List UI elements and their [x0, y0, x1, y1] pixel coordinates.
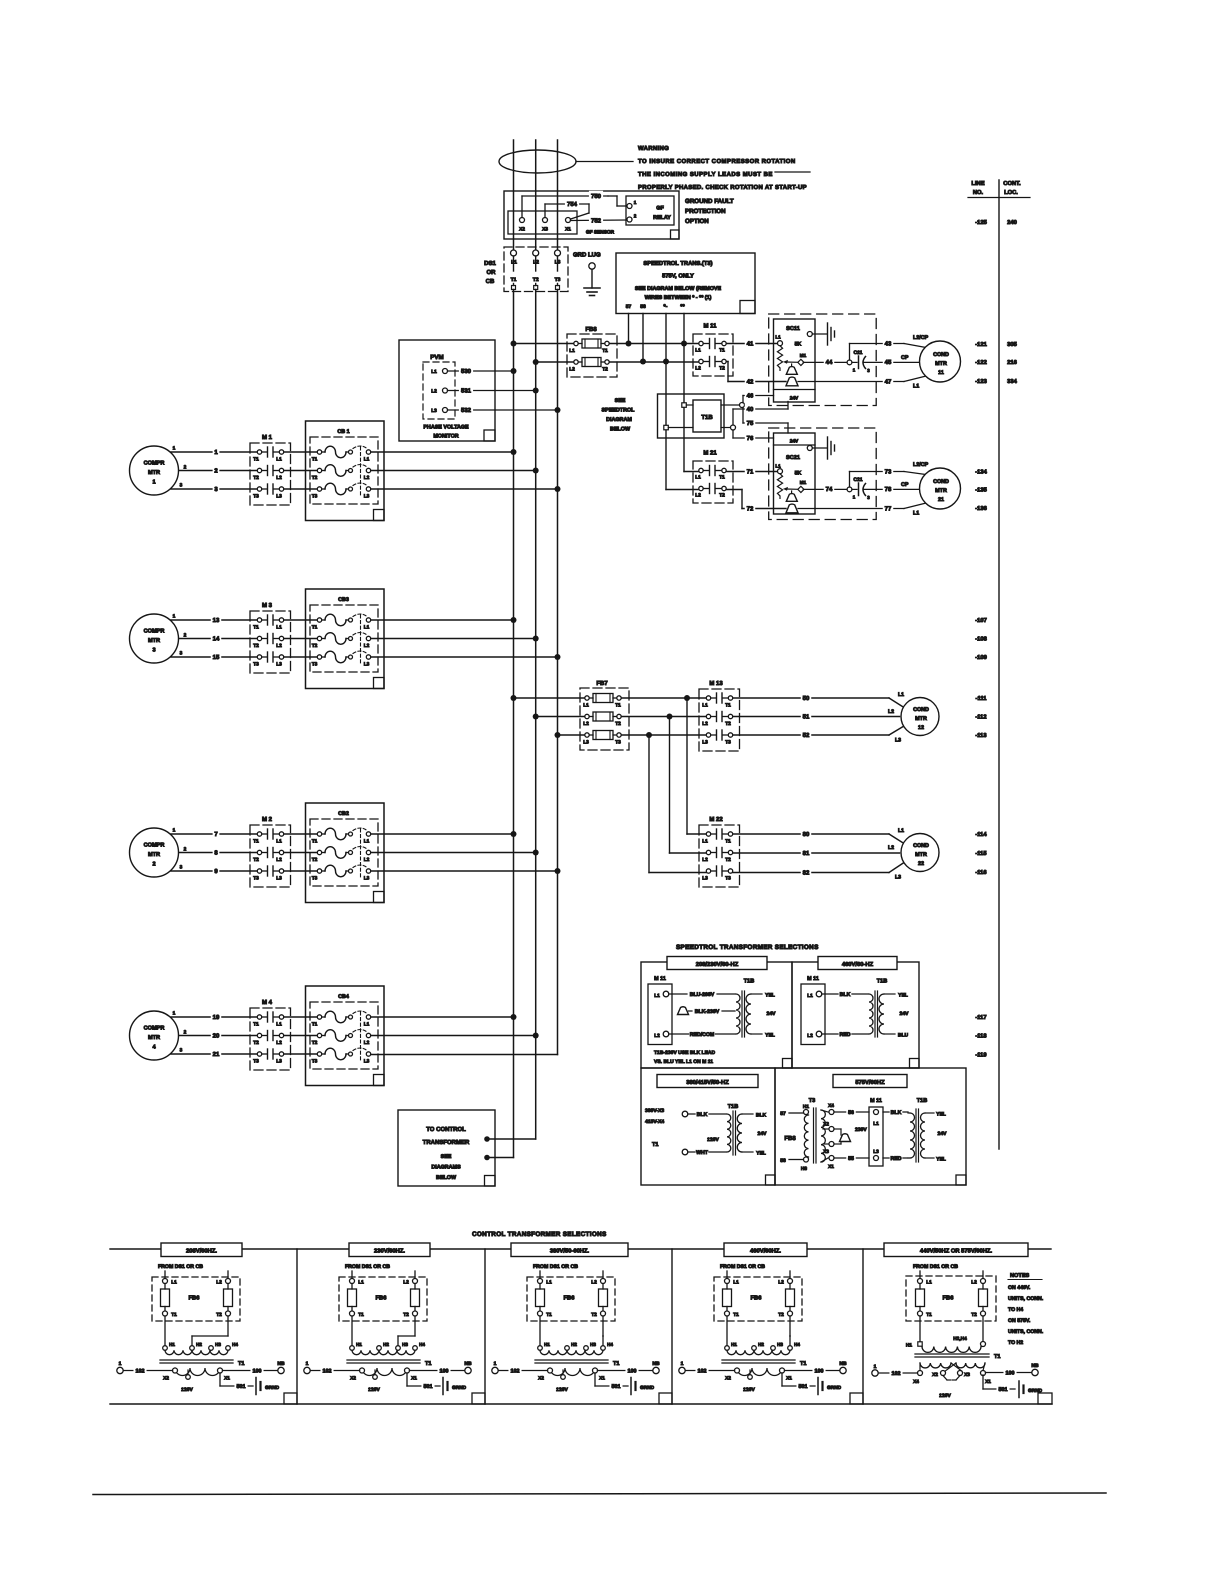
svg-text:CB2: CB2	[338, 811, 349, 817]
svg-text:L2: L2	[702, 857, 708, 863]
svg-text:-115: -115	[975, 851, 987, 857]
svg-text:40: 40	[747, 406, 754, 413]
panel header 460V	[818, 957, 897, 970]
control panel 5 wire 100	[986, 1363, 1039, 1376]
svg-text:T3: T3	[312, 1059, 318, 1065]
svg-text:13: 13	[213, 617, 220, 624]
svg-text:NOTES: NOTES	[1010, 1273, 1030, 1279]
DS1 pole L2	[533, 250, 539, 290]
svg-text:WARNING: WARNING	[638, 145, 669, 152]
svg-text:T1: T1	[253, 625, 259, 631]
svg-text:X2: X2	[538, 1376, 544, 1382]
svg-text:X1: X1	[224, 1376, 230, 1382]
svg-text:305: 305	[1007, 341, 1017, 348]
wire 46 T1B to SC11 24V	[742, 396, 744, 403]
svg-text:208V/60HZ.: 208V/60HZ.	[186, 1248, 217, 1255]
SC11 potentiometer	[777, 346, 782, 371]
svg-text:L2: L2	[702, 721, 708, 727]
wires compressor 1 to contactor M1	[171, 447, 257, 493]
svg-text:230V: 230V	[855, 1127, 867, 1133]
control panel 1 wire 102	[117, 1361, 173, 1374]
svg-text:CB4: CB4	[338, 994, 349, 1000]
svg-text:H2: H2	[571, 1342, 577, 1347]
panel D transformer T3 primary	[804, 1115, 808, 1157]
svg-text:LINE: LINE	[971, 181, 984, 187]
svg-text:PHASE VOLTAGE: PHASE VOLTAGE	[423, 425, 469, 431]
svg-text:L2/CP: L2/CP	[913, 462, 929, 468]
capacitor C21	[847, 477, 870, 500]
svg-text:RELAY: RELAY	[653, 215, 671, 221]
svg-text:H6: H6	[801, 1166, 807, 1172]
panel D terminal H6	[804, 1157, 809, 1162]
svg-text:1: 1	[119, 1361, 122, 1367]
wire bus L1 to FB8	[514, 343, 574, 345]
condenser motor 21	[920, 468, 961, 509]
svg-text:46: 46	[747, 392, 754, 399]
contactor M13	[699, 680, 740, 751]
bottom section dividers	[296, 1249, 298, 1404]
svg-text:L3: L3	[895, 875, 901, 881]
svg-text:H4: H4	[232, 1342, 238, 1347]
svg-text:H2: H2	[383, 1342, 389, 1347]
svg-text:L1: L1	[364, 839, 370, 845]
contactor M2	[250, 816, 291, 887]
svg-text:MTR: MTR	[148, 470, 160, 476]
svg-text:752: 752	[591, 217, 602, 224]
control panel 2 wire 102	[304, 1361, 360, 1374]
svg-text:YEL: YEL	[936, 1112, 946, 1118]
svg-text:460V/60HZ.: 460V/60HZ.	[750, 1248, 781, 1255]
warning note text	[638, 145, 807, 191]
svg-text:L2: L2	[695, 366, 701, 372]
svg-text:LOC.: LOC.	[1004, 189, 1018, 196]
wire bus L1 to FB7	[514, 697, 585, 699]
svg-text:CB: CB	[486, 278, 495, 285]
svg-text:21: 21	[938, 497, 944, 503]
condenser motor 22	[901, 834, 939, 872]
svg-text:L2: L2	[364, 857, 370, 863]
wire supply L1 top	[513, 140, 515, 251]
GF relay terminal 2	[627, 217, 632, 222]
control panel 3 transformer T1	[535, 1316, 620, 1393]
panel D wire 56	[834, 1111, 869, 1113]
PVM terminal L1 wire 530	[431, 366, 513, 375]
svg-text:2: 2	[184, 633, 187, 639]
svg-text:58: 58	[640, 304, 646, 310]
panel D wire 55	[834, 1157, 869, 1159]
svg-text:120V: 120V	[181, 1387, 193, 1393]
panel A wire BLU-208V	[669, 993, 735, 995]
wire 40 T1B to SC11 24V bottom	[732, 409, 734, 425]
svg-text:76: 76	[747, 435, 754, 442]
svg-text:216: 216	[1007, 359, 1017, 366]
svg-text:THE INCOMING SUPPLY LEADS MUST: THE INCOMING SUPPLY LEADS MUST BE	[638, 171, 773, 178]
svg-text:1: 1	[173, 1011, 176, 1017]
svg-text:T3: T3	[253, 876, 259, 882]
svg-text:BLK-230V: BLK-230V	[695, 1009, 720, 1015]
svg-text:T1: T1	[719, 348, 725, 354]
svg-text:T3: T3	[253, 1059, 259, 1065]
control panel 4 wire 102	[679, 1361, 735, 1374]
panel header 230V/60HZ.	[349, 1243, 430, 1257]
GF sensor terminal X2	[520, 218, 525, 223]
svg-text:X1: X1	[828, 1164, 834, 1170]
wire 78 C21 to motor CP	[864, 488, 921, 490]
svg-text:PVM: PVM	[430, 354, 443, 361]
junction drops to M22	[686, 698, 688, 834]
svg-text:M1: M1	[800, 480, 807, 485]
GF box corner notch	[671, 230, 680, 239]
svg-text:120V: 120V	[556, 1387, 568, 1393]
svg-text:100: 100	[815, 1368, 824, 1374]
svg-text:T2: T2	[719, 493, 725, 499]
svg-text:56: 56	[848, 1110, 854, 1116]
svg-text:T1: T1	[725, 839, 731, 845]
svg-text:T2: T2	[403, 1312, 409, 1318]
svg-text:MTR: MTR	[915, 716, 927, 722]
svg-text:L3: L3	[873, 1149, 879, 1155]
svg-text:1: 1	[173, 614, 176, 620]
svg-text:GF: GF	[656, 206, 664, 212]
svg-text:-111: -111	[976, 696, 988, 702]
control panel 1 transformer T1	[160, 1316, 245, 1393]
panel C terminal X3 wire BLK	[682, 1111, 688, 1117]
svg-text:43: 43	[885, 340, 892, 347]
svg-text:1: 1	[173, 446, 176, 452]
svg-text:H2: H2	[196, 1342, 202, 1347]
speed control SC21 inner box	[774, 433, 816, 514]
svg-text:M 11: M 11	[703, 323, 717, 330]
wire bus L2 to FB7	[536, 716, 585, 718]
svg-text:T1: T1	[511, 277, 517, 283]
svg-text:15: 15	[213, 654, 220, 661]
svg-text:H2,H4: H2,H4	[953, 1336, 967, 1342]
svg-text:FB6: FB6	[564, 1295, 576, 1302]
svg-text:L2: L2	[364, 643, 370, 649]
control panel 5 wire 501 to ground	[983, 1375, 1043, 1398]
wire 754	[545, 199, 589, 219]
svg-text:440V/50HZ OR 575V/60HZ.: 440V/50HZ OR 575V/60HZ.	[920, 1248, 993, 1255]
svg-text:-108: -108	[975, 636, 987, 643]
control panel 5 wire 102	[872, 1364, 918, 1377]
panel A horn symbol	[678, 1007, 689, 1015]
phase voltage monitor box	[399, 340, 495, 441]
panel C terminal X1 wire WHT	[682, 1149, 688, 1155]
svg-text:GRND: GRND	[1028, 1388, 1043, 1394]
svg-text:L1: L1	[702, 839, 708, 845]
svg-text:L1: L1	[775, 464, 781, 469]
svg-text:L2: L2	[276, 475, 282, 481]
svg-text:-125: -125	[975, 219, 987, 226]
fuse block FB7	[580, 680, 629, 750]
svg-text:X2: X2	[932, 1372, 938, 1378]
svg-text:L3: L3	[364, 1059, 370, 1065]
svg-text:T3: T3	[312, 494, 318, 500]
svg-text:X2: X2	[823, 1122, 829, 1128]
DS1 pole L1	[511, 250, 518, 290]
speedtrol panel 380/415V outer box	[641, 1068, 775, 1185]
svg-text:T1: T1	[800, 1361, 807, 1367]
svg-text:L2: L2	[276, 1040, 282, 1046]
svg-text:120V: 120V	[743, 1387, 755, 1393]
svg-text:L1: L1	[431, 369, 437, 375]
svg-text:-122: -122	[975, 359, 987, 366]
svg-text:L1: L1	[276, 625, 282, 631]
svg-text:102: 102	[698, 1368, 707, 1374]
panel C transformer T1B	[727, 1104, 767, 1157]
svg-text:T1: T1	[652, 1142, 659, 1148]
svg-text:12: 12	[918, 725, 924, 731]
svg-text:H3: H3	[590, 1342, 596, 1347]
GF relay terminal 1	[627, 204, 632, 209]
svg-text:OR: OR	[487, 269, 497, 276]
svg-text:24V: 24V	[758, 1131, 768, 1137]
panel A wire BLK-230V	[689, 1010, 736, 1012]
svg-text:L2: L2	[431, 389, 437, 395]
svg-text:FB6: FB6	[376, 1295, 388, 1302]
svg-text:L2: L2	[569, 367, 575, 373]
svg-text:H4: H4	[419, 1342, 425, 1347]
svg-text:L1: L1	[364, 625, 370, 631]
SC21 terminal L1	[778, 469, 783, 474]
svg-text:T1: T1	[253, 839, 259, 845]
svg-text:X2: X2	[350, 1376, 356, 1382]
circuit breaker CB 1	[306, 421, 385, 521]
svg-text:COMPR: COMPR	[144, 629, 165, 635]
svg-text:X4: X4	[913, 1379, 919, 1385]
svg-text:T1: T1	[613, 1361, 620, 1367]
svg-text:COND: COND	[933, 479, 949, 485]
svg-text:42: 42	[747, 378, 754, 385]
svg-text:X1: X1	[599, 1376, 605, 1382]
svg-text:OPTION: OPTION	[685, 218, 709, 225]
svg-text:531: 531	[461, 387, 472, 394]
svg-text:BLK: BLK	[756, 1113, 767, 1119]
panel D tap X4	[821, 1110, 828, 1112]
svg-text:VS. BLU YEL L1 ON M 11: VS. BLU YEL L1 ON M 11	[654, 1059, 713, 1065]
svg-text:M 11: M 11	[870, 1098, 882, 1104]
svg-text:MTR: MTR	[148, 638, 160, 644]
svg-text:57: 57	[626, 304, 632, 310]
SC11 ground terminal	[807, 332, 812, 337]
svg-text:CONT.: CONT.	[1003, 180, 1021, 187]
SC21 wiper arrow	[786, 488, 799, 490]
panel A contactor M11	[648, 976, 672, 1045]
speedtrol note box	[616, 253, 755, 314]
svg-text:SEE: SEE	[615, 398, 626, 404]
panel D T3 secondary	[821, 1110, 825, 1162]
svg-text:1: 1	[306, 1361, 309, 1367]
panel header 460V/60HZ.	[724, 1243, 807, 1257]
svg-text:*-: *-	[664, 304, 668, 310]
svg-text:-109: -109	[975, 654, 987, 661]
svg-text:L2: L2	[971, 1280, 977, 1286]
svg-text:380V/50-60HZ.: 380V/50-60HZ.	[550, 1248, 590, 1255]
svg-text:3: 3	[152, 648, 155, 654]
svg-text:72: 72	[747, 505, 754, 512]
svg-text:-134: -134	[975, 469, 987, 476]
svg-text:T3: T3	[253, 662, 259, 668]
svg-text:575V/60HZ: 575V/60HZ	[855, 1079, 885, 1086]
svg-text:COND: COND	[933, 352, 949, 358]
control panel 3 wire 102	[492, 1361, 548, 1374]
svg-text:T1: T1	[425, 1361, 432, 1367]
svg-text:BLK: BLK	[840, 992, 851, 998]
svg-text:M 21: M 21	[703, 450, 717, 457]
svg-text:M 2: M 2	[262, 816, 273, 823]
svg-text:X3: X3	[823, 1149, 829, 1155]
svg-text:L1: L1	[733, 1280, 739, 1286]
svg-text:T2: T2	[591, 1312, 597, 1318]
svg-text:H3: H3	[402, 1342, 408, 1347]
svg-text:L2: L2	[276, 857, 282, 863]
svg-text:SPEEDTROL: SPEEDTROL	[602, 408, 636, 414]
svg-text:YEL: YEL	[756, 1151, 766, 1157]
svg-text:M 13: M 13	[709, 680, 723, 687]
panel B transformer T1B	[869, 979, 909, 1039]
PVM terminal L3 wire 532	[431, 405, 557, 414]
SC11 terminal L1	[778, 341, 783, 346]
svg-text:T1: T1	[719, 475, 725, 481]
svg-text:UNITS, CONN.: UNITS, CONN.	[1008, 1329, 1044, 1335]
panel D terminal H1	[804, 1110, 809, 1115]
wire bus L2 to control transformer	[487, 1138, 536, 1140]
svg-text:L2: L2	[276, 643, 282, 649]
svg-text:X2: X2	[163, 1376, 169, 1382]
control panel 4 transformer T1	[722, 1316, 807, 1393]
svg-text:T2: T2	[312, 857, 318, 863]
wires M22 to condenser motor 22	[733, 828, 904, 881]
svg-text:MTR: MTR	[148, 852, 160, 858]
svg-text:5K: 5K	[795, 471, 802, 477]
PVM terminal L2 wire 531	[431, 385, 536, 394]
svg-text:FB7: FB7	[596, 680, 608, 687]
svg-text:L2: L2	[888, 709, 894, 715]
svg-text:L1: L1	[583, 703, 589, 709]
svg-text:GRND: GRND	[452, 1385, 467, 1391]
speedtrol panel 460V outer box	[792, 962, 919, 1068]
svg-text:100: 100	[440, 1368, 449, 1374]
svg-text:RED: RED	[840, 1032, 851, 1038]
svg-text:575V, ONLY: 575V, ONLY	[662, 273, 694, 280]
svg-text:L1: L1	[171, 1280, 177, 1286]
panel corner notches	[783, 1059, 793, 1069]
SC11 horn 1	[791, 364, 793, 368]
wire bus L1 to control transformer	[487, 1157, 514, 1159]
svg-text:WIRES BETWEEN * - ** (1): WIRES BETWEEN * - ** (1)	[645, 295, 712, 301]
wires M13 to condenser motor 12	[733, 692, 904, 744]
svg-text:MTR: MTR	[915, 852, 927, 858]
svg-text:24V: 24V	[790, 396, 799, 402]
svg-text:L3: L3	[276, 876, 282, 882]
svg-text:3: 3	[180, 651, 183, 657]
svg-text:120V: 120V	[368, 1387, 380, 1393]
svg-text:T1: T1	[733, 1312, 739, 1318]
svg-text:UNITS, CONN.: UNITS, CONN.	[1008, 1296, 1044, 1302]
svg-text:SEE: SEE	[441, 1154, 452, 1160]
panel D tap X2	[823, 1128, 828, 1130]
svg-text:X3: X3	[542, 227, 548, 233]
svg-text:T2: T2	[253, 475, 259, 481]
svg-text:H4: H4	[607, 1342, 613, 1347]
svg-text:380V-X3: 380V-X3	[645, 1108, 664, 1114]
speedtrol panel 575V outer box	[775, 1068, 966, 1185]
wire bus L2 to FB8	[536, 361, 574, 363]
svg-text:L1: L1	[364, 457, 370, 463]
wires compressor 2 to contactor M2	[171, 829, 257, 875]
svg-text:754: 754	[567, 201, 578, 208]
svg-text:L3: L3	[364, 662, 370, 668]
svg-text:H1: H1	[169, 1342, 175, 1347]
svg-text:L1: L1	[276, 1022, 282, 1028]
svg-text:L3: L3	[364, 494, 370, 500]
svg-text:-136: -136	[975, 505, 987, 512]
svg-text:L1: L1	[654, 993, 660, 999]
svg-text:BELOW: BELOW	[610, 427, 631, 433]
svg-text:19: 19	[213, 1014, 220, 1021]
svg-text:CB 1: CB 1	[337, 429, 349, 435]
svg-text:TO CONTROL: TO CONTROL	[426, 1126, 466, 1133]
GF relay box	[626, 196, 674, 225]
page bottom rule	[93, 1493, 1106, 1495]
svg-text:GROUND FAULT: GROUND FAULT	[685, 198, 734, 205]
panel B contactor M11	[801, 976, 825, 1045]
svg-text:24V: 24V	[938, 1131, 948, 1137]
svg-text:2: 2	[184, 1030, 187, 1036]
svg-text:COND: COND	[913, 707, 929, 713]
svg-text:L2: L2	[695, 493, 701, 499]
svg-text:COMPR: COMPR	[144, 461, 165, 467]
svg-text:1: 1	[874, 1364, 877, 1370]
svg-text:MTR: MTR	[935, 488, 947, 494]
bus line L1	[513, 290, 515, 1158]
control panel 2 wire 501 to ground	[407, 1373, 467, 1395]
wires CB4 to bus	[371, 1016, 514, 1018]
table header LINE NO / CONT LOC	[968, 180, 1030, 198]
svg-text:T3: T3	[725, 740, 731, 746]
svg-text:L1: L1	[807, 993, 813, 999]
svg-text:NB: NB	[277, 1361, 285, 1367]
svg-text:100: 100	[253, 1368, 262, 1374]
svg-text:100: 100	[628, 1368, 637, 1374]
contactor M21	[693, 450, 733, 504]
SC11 horn 2 on wire 47	[786, 377, 798, 386]
svg-text:FB6: FB6	[943, 1295, 955, 1302]
svg-text:T1: T1	[546, 1312, 552, 1318]
svg-text:NB: NB	[839, 1361, 847, 1367]
svg-text:-116: -116	[975, 869, 987, 876]
svg-text:71: 71	[747, 468, 754, 475]
panel D contactor M11 box	[869, 1107, 883, 1166]
wire ** stub down to T1B and M21	[683, 314, 685, 403]
svg-text:L2/CP: L2/CP	[913, 335, 929, 341]
svg-text:L2: L2	[888, 845, 894, 851]
SC21 horn 2 on wire 77	[786, 504, 798, 513]
compressor motor 4	[130, 1011, 187, 1061]
svg-text:3: 3	[180, 483, 183, 489]
wire stub *- to M21 L2	[684, 471, 699, 473]
svg-text:GRD LUG: GRD LUG	[573, 252, 601, 259]
svg-text:T1: T1	[312, 625, 318, 631]
supply phasing ellipse	[499, 150, 576, 173]
svg-text:T1B: T1B	[917, 1098, 928, 1104]
svg-text:CB3: CB3	[338, 597, 349, 603]
svg-text:T1: T1	[171, 1312, 177, 1318]
svg-text:T3: T3	[312, 662, 318, 668]
wire FB8 T2 to M11 L2	[610, 361, 699, 363]
svg-text:T2: T2	[725, 721, 731, 727]
svg-text:L1: L1	[775, 335, 781, 340]
